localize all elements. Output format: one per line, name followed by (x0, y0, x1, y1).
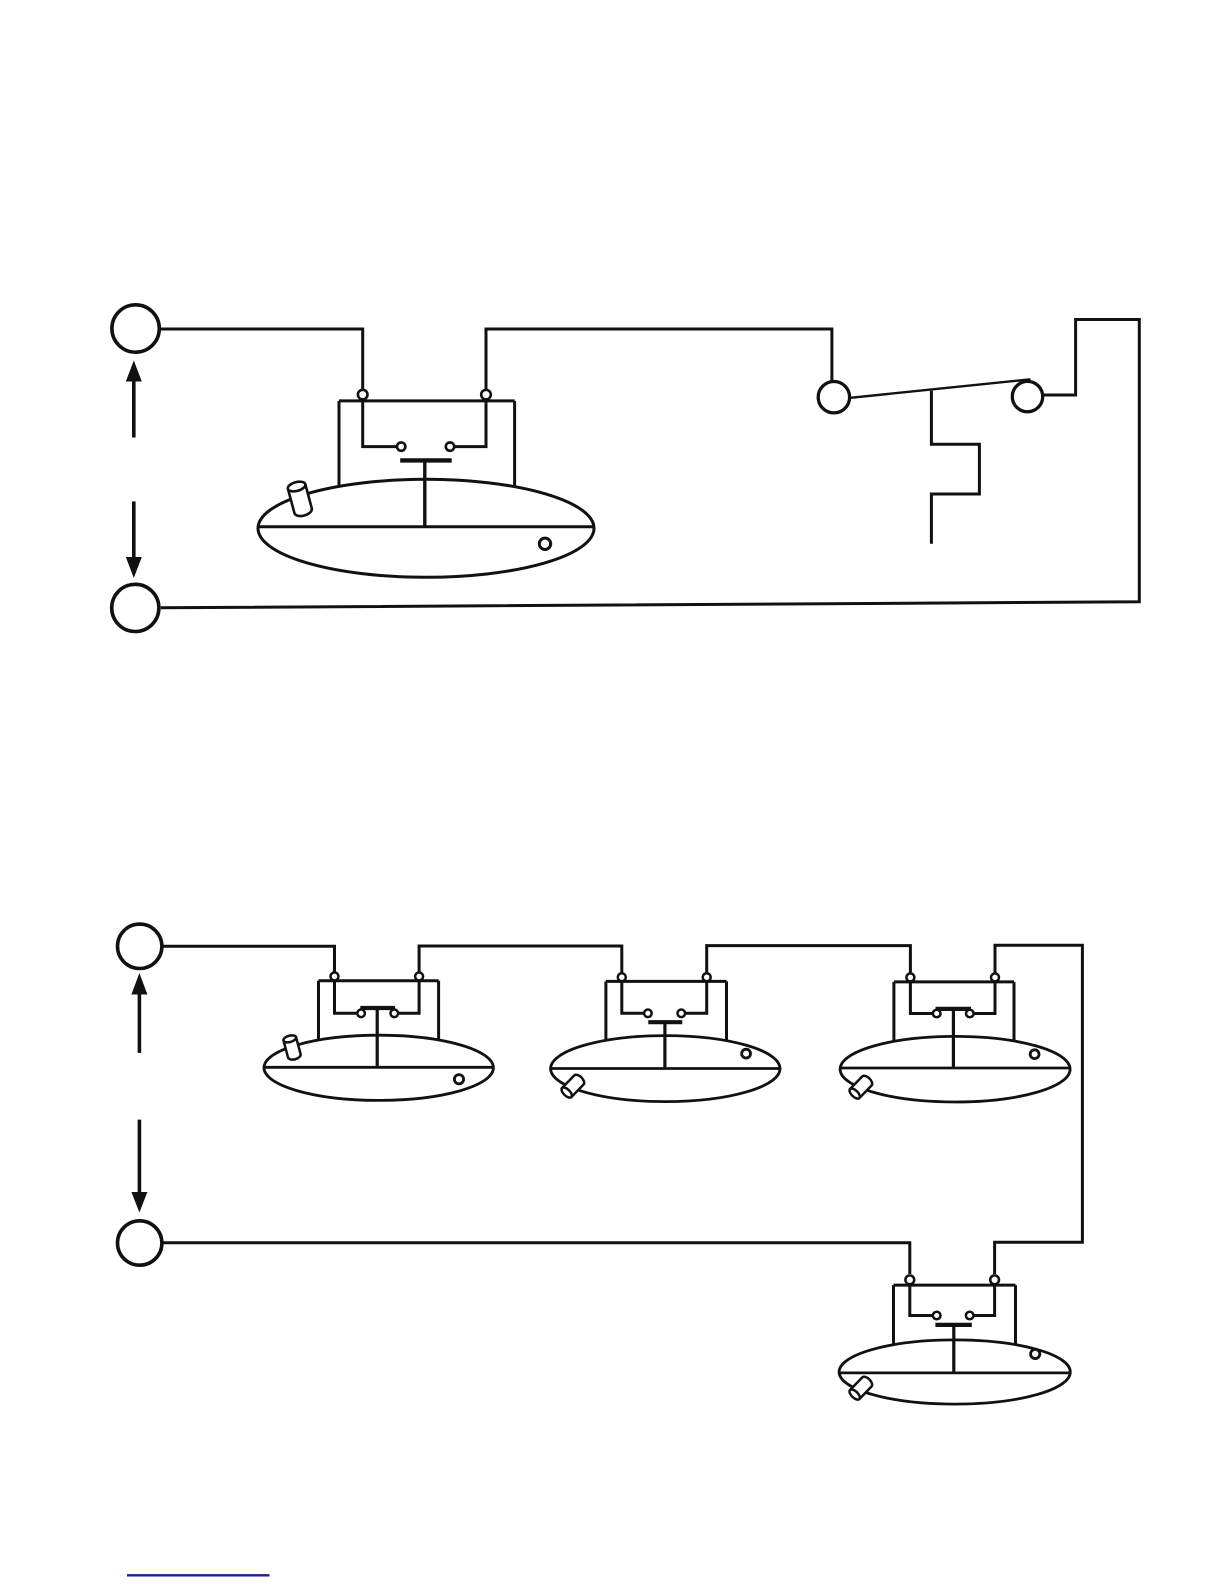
node D (supply circle, bottom left) (118, 1221, 162, 1265)
detector D2 terminal pin L (618, 973, 626, 981)
detector D4 stem (952, 1325, 955, 1373)
detector D4 contact arm right (974, 1285, 995, 1315)
wire: detector D2 to detector D3 (707, 946, 911, 974)
detector D3 contact point R (966, 1010, 974, 1018)
wire: hot terminal A to detector terminal L (161, 329, 363, 391)
detector D4 shorting bar (open) (935, 1323, 971, 1327)
detector D1 LED (454, 1075, 463, 1084)
detector D2 stem (663, 1022, 666, 1068)
node B (supply circle, bottom left) (112, 584, 159, 631)
detector U1 stem (423, 460, 426, 527)
arrow up (between C and D) (131, 973, 147, 1053)
detector U1 rim line (258, 525, 593, 528)
detector D1 contact point R (391, 1010, 399, 1018)
switch S1 right terminal circle (1012, 381, 1042, 411)
detector D4 mounting bracket (894, 1285, 1016, 1355)
detector U1 terminal pin L (358, 390, 368, 400)
switch S1 blade (851, 379, 1031, 398)
detector D2 contact point R (678, 1010, 686, 1018)
detector D1 terminal pin L (331, 972, 339, 980)
arrow down (between A and B) (126, 501, 142, 578)
detector U1 terminal pin R (481, 390, 491, 400)
detector D3 stem (952, 1009, 955, 1069)
wire: detector terminal R up and right to switch (486, 329, 832, 391)
detector D4 contact arm left (910, 1285, 933, 1315)
detector D3 terminal pin L (906, 973, 914, 981)
detector D4 contact point R (966, 1312, 974, 1320)
detector D1 mounting bracket (319, 981, 439, 1050)
detector D4 rim line (839, 1372, 1070, 1375)
detector D2 rim line (551, 1067, 780, 1070)
detector D3 rim line (840, 1067, 1070, 1070)
wire: switch right terminal to return conductor and back to terminal B (161, 320, 1140, 608)
detector D3 terminal pin R (991, 973, 999, 981)
detector D1 stem (376, 1008, 379, 1068)
detector D1 contact arm right (399, 981, 420, 1013)
wire: terminal C to detector D1 (163, 946, 334, 973)
detector D1 shorting bar (closed) (360, 1006, 395, 1010)
detector D3 mounting bracket (894, 982, 1014, 1050)
detector D3 LED (1030, 1050, 1039, 1059)
detector D1 body ellipse (264, 1035, 493, 1100)
detector U1 contact arm left (363, 401, 397, 447)
detector D3 horn (848, 1074, 874, 1101)
detector D1 terminal pin R (415, 972, 423, 980)
detector D4 body ellipse (839, 1340, 1070, 1404)
detector D2 horn (560, 1073, 586, 1100)
switch S1 pull chain (931, 391, 979, 544)
node A (supply circle, top left) (112, 305, 159, 352)
detector U1 contact point R (446, 442, 454, 450)
detector D4 horn (848, 1375, 874, 1402)
detector D2 shorting bar (open) (648, 1020, 682, 1024)
detector U1 shorting bar (open) (400, 458, 452, 462)
detector D4 LED (1031, 1349, 1040, 1358)
detector D1 contact point L (357, 1010, 365, 1018)
detector U1 LED (539, 538, 550, 549)
detector D2 contact point L (644, 1010, 652, 1018)
detector D2 body ellipse (551, 1036, 780, 1102)
detector D1 horn (283, 1034, 302, 1061)
detector D1 contact arm left (335, 981, 358, 1013)
detector D3 contact point L (933, 1010, 941, 1018)
detector D4 terminal pin R (990, 1275, 999, 1284)
detector D3 contact arm right (974, 982, 995, 1014)
detector U1 contact point L (397, 442, 405, 450)
detector U1 mounting bracket (339, 401, 515, 500)
detector D4 terminal pin L (905, 1275, 914, 1284)
detector D2 LED (742, 1049, 751, 1058)
detector D3 body ellipse (840, 1036, 1070, 1102)
detector D2 contact arm right (686, 981, 707, 1013)
detector D4 contact point L (933, 1312, 941, 1320)
arrow up (between A and B) (126, 361, 142, 438)
wire: terminal D along bottom to detector D4 terminal L (163, 1243, 910, 1274)
detector D3 shorting bar (closed) (936, 1007, 972, 1011)
detector D1 rim line (264, 1066, 493, 1069)
node C (supply circle, top left) (118, 924, 162, 968)
wire: detector D3 to right riser and down to detector D4 terminal R (995, 945, 1083, 1274)
detector U1 contact arm right (454, 401, 486, 447)
footer blue rule (127, 1574, 270, 1576)
detector D2 terminal pin R (703, 973, 711, 981)
wire: detector D1 to detector D2 (419, 946, 622, 974)
detector U1 body ellipse (258, 479, 594, 577)
arrow down (between C and D) (131, 1120, 147, 1213)
detector U1 horn (287, 480, 313, 518)
detector D2 mounting bracket (606, 981, 727, 1050)
detector D3 contact arm left (910, 982, 932, 1014)
detector D2 contact arm left (622, 981, 644, 1013)
switch S1 left terminal circle (818, 382, 849, 413)
